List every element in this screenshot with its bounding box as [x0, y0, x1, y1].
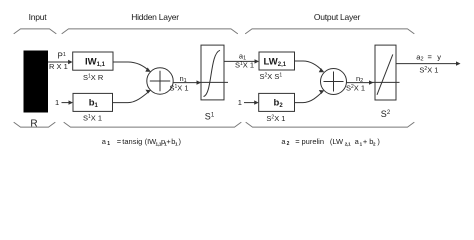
svg-text:S2X 1: S2X 1 [346, 83, 365, 92]
svg-text:R X 1: R X 1 [49, 62, 68, 71]
svg-text:R: R [30, 118, 37, 129]
svg-text:S1X R: S1X R [83, 73, 104, 82]
svg-text:S2X 1: S2X 1 [419, 66, 438, 75]
svg-text:a2=y: a2=y [416, 52, 441, 62]
svg-text:P1: P1 [58, 52, 66, 61]
svg-text:S2X S1: S2X S1 [260, 72, 283, 81]
svg-text:1: 1 [55, 98, 59, 107]
svg-text:Input: Input [29, 12, 48, 22]
svg-text:1: 1 [238, 98, 242, 107]
svg-text:S2: S2 [381, 109, 391, 119]
svg-text:Hidden Layer: Hidden Layer [131, 12, 179, 22]
svg-text:Output Layer: Output Layer [314, 12, 361, 22]
svg-text:a2=purelin(LW2,1a1+b2): a2=purelin(LW2,1a1+b2) [281, 137, 380, 147]
svg-text:S2X 1: S2X 1 [266, 114, 285, 123]
svg-text:S1X 1: S1X 1 [83, 114, 102, 123]
svg-text:S1X 1: S1X 1 [235, 61, 254, 70]
svg-text:S1X 1: S1X 1 [170, 83, 189, 92]
svg-text:S1: S1 [205, 111, 215, 121]
svg-text:a1=tansig(IW1,1p1+b1): a1=tansig(IW1,1p1+b1) [102, 137, 182, 147]
